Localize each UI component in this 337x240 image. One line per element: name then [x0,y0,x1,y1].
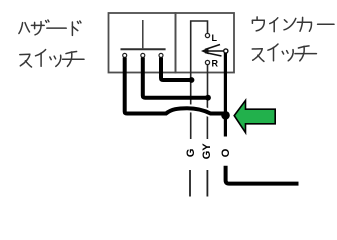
text ハザード (hazard) [19,20,81,35]
thick wire from hazard terminal 3 to node G [161,58,192,81]
svg-text:R: R [212,59,219,69]
winker contact L [205,33,209,37]
wire G bottom segment [189,170,191,197]
hazard terminal 1 [123,53,127,57]
svg-text:GY: GY [201,143,213,160]
hazard terminal 3 [159,53,163,57]
thick wire from hazard terminal 2 to node GY [143,58,208,98]
thick wire from hazard terminal 1 with hop [166,108,211,113]
green arrow pointing at node [234,100,275,132]
main junction node dot [221,111,230,120]
text スイッチ (switch, right) [252,44,316,61]
hazard switch box SW1 [109,13,176,73]
hazard terminal 2 [141,53,145,57]
thick wire O from lever down [224,53,227,137]
text ウインカー (winker) [252,17,334,32]
text スイッチ (switch, left) [20,50,84,67]
hazard switch bar [121,48,166,50]
junction dot on wire G [189,77,195,83]
winker contact R [205,60,209,64]
wire GY below junction [206,98,208,140]
winker L-contact loop wire [191,21,208,74]
svg-text:G: G [185,148,197,157]
hazard switch actuator [142,20,144,48]
svg-text:O: O [220,148,232,157]
winker switch box SW2 [176,13,235,73]
svg-text:L: L [212,33,218,43]
wire GY bottom segment [206,170,208,197]
winker lever arrow [204,45,224,57]
winker lever pivot circle [224,49,228,53]
wire R contact down to GY junction [207,65,209,98]
wire G: L-loop continues below box [190,74,192,140]
junction dot on wire GY [205,95,211,101]
